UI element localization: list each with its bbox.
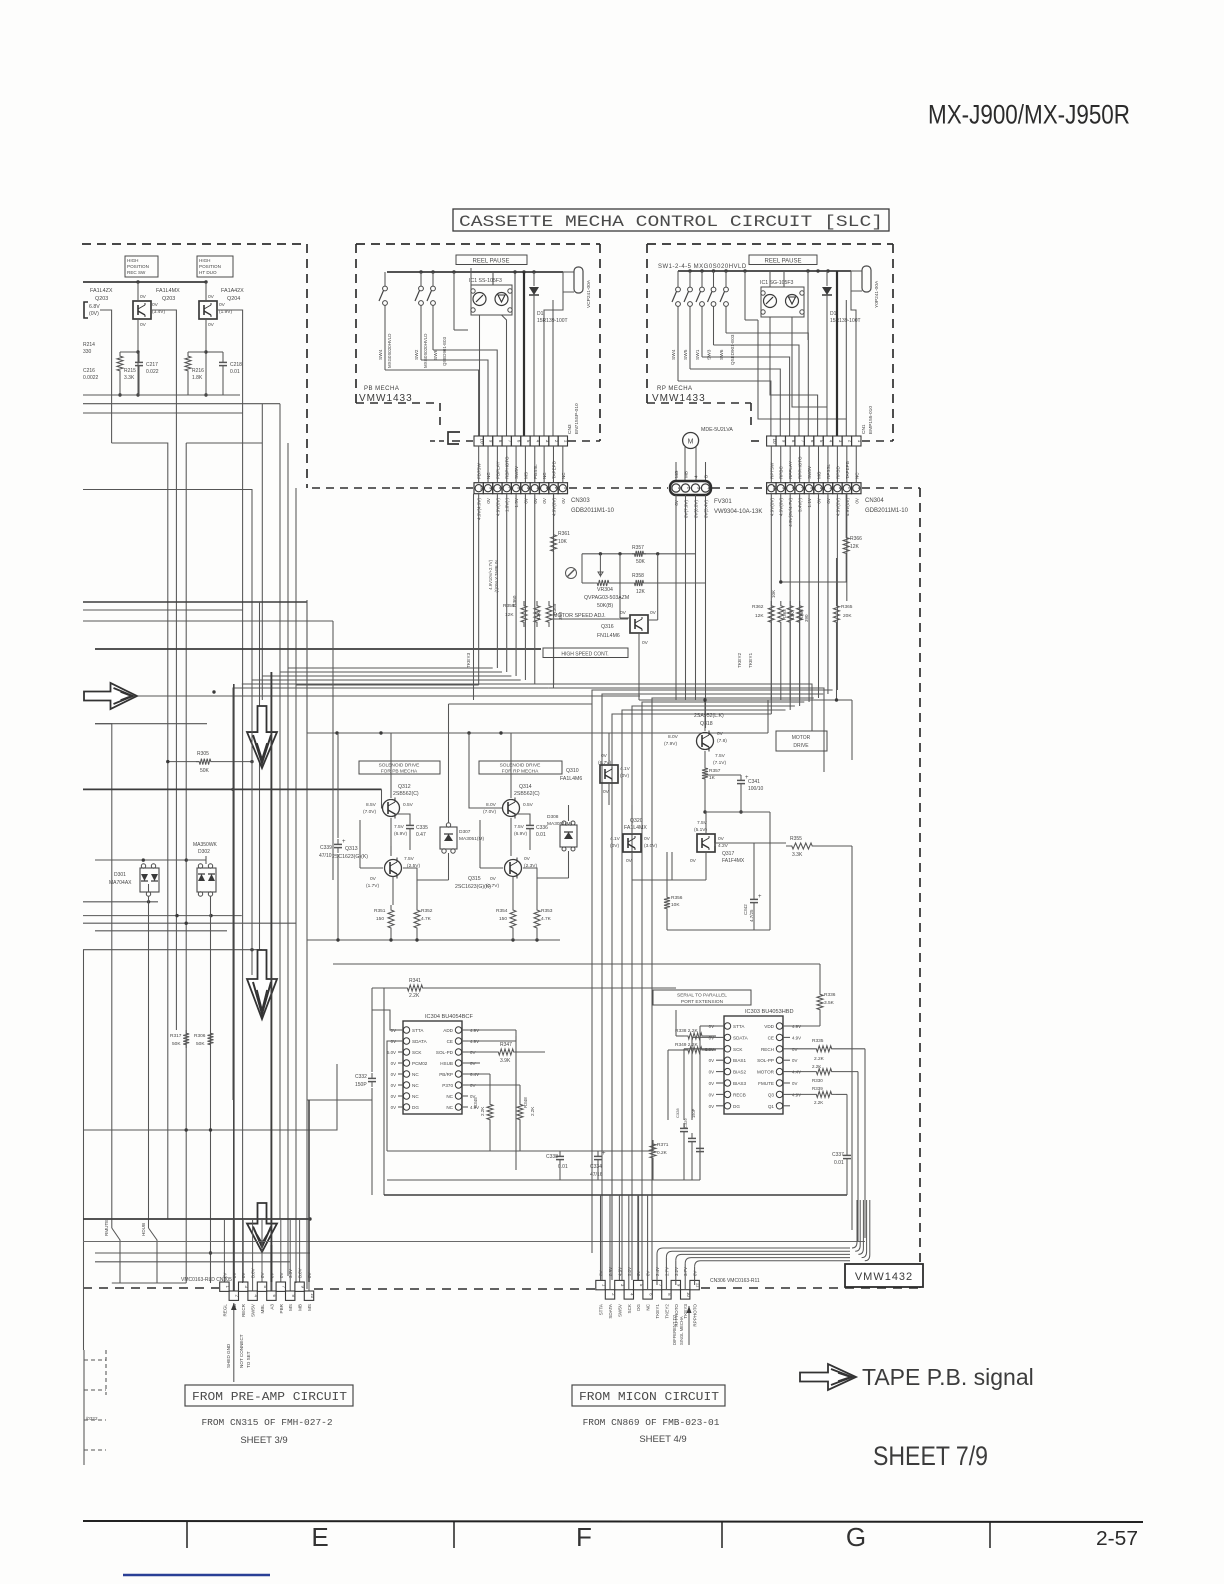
svg-text:2-57: 2-57 — [1096, 1528, 1138, 1550]
svg-text:TKEY2: TKEY2 — [664, 1304, 669, 1319]
svg-text:(1.7V): (1.7V) — [486, 883, 499, 889]
capacitor C339 — [337, 733, 339, 838]
svg-text:D302: D302 — [198, 849, 210, 855]
title box CASSETTE MECHA CONTROL CIRCUIT [SLC] — [453, 209, 889, 231]
svg-text:0V: 0V — [601, 753, 608, 759]
svg-text:DG: DG — [412, 1105, 419, 1110]
svg-text:SOLENOID DRIVE: SOLENOID DRIVE — [379, 763, 420, 769]
svg-text:C339: C339 — [320, 845, 332, 851]
wire IC big box — [383, 988, 385, 1195]
svg-text:330: 330 — [83, 349, 92, 355]
svg-text:(0V): (0V) — [89, 311, 99, 317]
switch SW6 PB — [432, 272, 434, 286]
wire y621 — [83, 620, 333, 622]
svg-text:R338 2.2K: R338 2.2K — [675, 1028, 698, 1034]
svg-text:G: G — [846, 1522, 866, 1552]
svg-text:R305: R305 — [197, 751, 209, 757]
svg-text:HIGH: HIGH — [199, 258, 210, 263]
svg-text:0V: 0V — [709, 1092, 714, 1097]
svg-text:SW6: SW6 — [719, 349, 725, 360]
svg-text:3.3V: 3.3V — [288, 1269, 293, 1278]
svg-text:1.8K: 1.8K — [192, 375, 203, 381]
wires motor drive loops — [818, 845, 852, 847]
wire y1261 — [95, 1261, 290, 1263]
svg-text:CN1: CN1 — [861, 424, 867, 434]
svg-text:2SB562(C): 2SB562(C) — [514, 791, 540, 797]
svg-text:8.0V: 8.0V — [486, 802, 497, 808]
svg-text:0V: 0V — [709, 1104, 714, 1109]
resistor R357b 1K — [702, 765, 708, 782]
svg-text:12K: 12K — [755, 613, 764, 619]
svg-text:SOL-PD: SOL-PD — [436, 1050, 454, 1055]
wire y923 — [83, 922, 296, 924]
svg-text:SW4: SW4 — [378, 349, 384, 360]
svg-text:12K: 12K — [636, 589, 646, 595]
svg-text:2SC1623(G)(K): 2SC1623(G)(K) — [332, 854, 368, 860]
svg-text:MB: MB — [684, 471, 689, 478]
wire y610 — [83, 609, 243, 611]
svg-text:MA3051(M): MA3051(M) — [547, 821, 572, 827]
svg-text:R354: R354 — [496, 908, 508, 914]
svg-text:R353: R353 — [541, 908, 553, 914]
blue underline mark — [123, 1574, 270, 1577]
svg-text:SW6: SW6 — [433, 349, 439, 360]
svg-text:12K: 12K — [850, 544, 860, 550]
svg-text:SW5V: SW5V — [514, 465, 519, 479]
wire verticals into CN306 — [600, 1195, 602, 1280]
ruler tick 4 — [989, 1522, 991, 1548]
svg-text:1K: 1K — [709, 775, 716, 781]
wire bus x262.3 — [261, 404, 263, 700]
svg-text:Q310: Q310 — [566, 768, 579, 774]
svg-text:P370: P370 — [442, 1083, 453, 1088]
screw adjust symbol — [566, 568, 577, 579]
svg-text:SHEET 4/9: SHEET 4/9 — [639, 1434, 686, 1445]
svg-text:R357: R357 — [709, 768, 721, 774]
wires IC303 right — [836, 1048, 865, 1050]
svg-text:VMC0163-RLD CN305: VMC0163-RLD CN305 — [181, 1277, 232, 1283]
wire y1130 — [83, 1064, 337, 1130]
svg-text:0V: 0V — [279, 1273, 284, 1278]
svg-text:R365: R365 — [841, 604, 853, 610]
label box FROM MICON CIRCUIT — [572, 1385, 725, 1406]
wire x612 column top — [611, 988, 613, 1280]
wire Q318 vertical — [704, 700, 706, 731]
svg-text:2.2K: 2.2K — [530, 1107, 535, 1116]
svg-text:MOTOR SPEED ADJ.: MOTOR SPEED ADJ. — [553, 613, 606, 619]
svg-text:(7.0V): (7.0V) — [363, 809, 376, 815]
svg-text:MA350WK: MA350WK — [193, 842, 218, 848]
resistor R216 — [188, 351, 206, 353]
svg-text:R361: R361 — [558, 531, 570, 537]
svg-text:43K: 43K — [536, 611, 542, 620]
capacitor C341 — [705, 774, 741, 776]
resistor cluster R362 R363 R364 R368 — [768, 601, 774, 627]
svg-text:4.1V: 4.1V — [610, 836, 621, 842]
svg-text:PBSSL: PBSSL — [533, 464, 538, 479]
svg-text:Q317: Q317 — [722, 851, 734, 857]
svg-text:43K: 43K — [790, 612, 795, 620]
wire solenoid bottom rail — [307, 939, 560, 941]
REEL PAUSE label box RP — [749, 255, 817, 265]
wire bottom rail y1283 — [112, 1282, 186, 1284]
resistor R345 — [489, 1074, 491, 1100]
left edge connector stub — [83, 1350, 85, 1465]
svg-text:R360: R360 — [512, 595, 518, 607]
wires CN303 pins down — [478, 494, 480, 685]
svg-text:R345: R345 — [473, 1097, 478, 1108]
svg-text:R339: R339 — [812, 1086, 823, 1091]
svg-text:0.01: 0.01 — [834, 1160, 844, 1166]
label box HIGH POSITION REC SW — [125, 256, 158, 277]
plug VCP241-00A PB — [574, 267, 583, 293]
svg-text:(3.0V): (3.0V) — [644, 843, 657, 849]
svg-text:ADD: ADD — [443, 1028, 453, 1033]
wire bus x307 lower — [306, 600, 308, 1289]
svg-text:R351: R351 — [374, 908, 386, 914]
wires Q313 network — [360, 867, 383, 869]
svg-text:0V: 0V — [717, 731, 724, 737]
svg-text:2.2K: 2.2K — [480, 1107, 485, 1116]
svg-text:RMUTE: RMUTE — [104, 1220, 109, 1236]
svg-text:FA1F4MX: FA1F4MX — [722, 858, 745, 864]
svg-text:REEL PAUSE: REEL PAUSE — [764, 259, 801, 265]
wire Q312 base feed — [382, 789, 384, 808]
svg-text:D307: D307 — [459, 829, 471, 835]
PB MECHA dashed enclosure — [356, 243, 600, 245]
down arrow 1 — [247, 706, 277, 768]
svg-text:RP MECHA: RP MECHA — [657, 386, 693, 392]
svg-text:0V: 0V — [792, 1081, 797, 1086]
resistor R365 — [834, 601, 840, 627]
svg-text:R317: R317 — [170, 1033, 182, 1039]
svg-text:HSUB: HSUB — [440, 1061, 453, 1066]
svg-text:POSITION: POSITION — [199, 264, 221, 269]
resistor R306 inline — [208, 1030, 214, 1048]
svg-text:10: 10 — [686, 1292, 691, 1297]
svg-text:15R139-100T: 15R139-100T — [537, 318, 568, 324]
wires IC304 left — [372, 1010, 398, 1030]
connector CN306 staggered pins — [596, 1280, 605, 1289]
svg-text:FV301: FV301 — [714, 499, 732, 505]
plug Y0P241-00A RP — [862, 266, 871, 292]
svg-text:C332: C332 — [355, 1074, 367, 1080]
svg-text:D1: D1 — [830, 311, 837, 317]
svg-text:0.0022: 0.0022 — [83, 375, 99, 381]
label box SOLENOID DRIVE FOR RP MECHA — [479, 761, 562, 774]
svg-text:NC: NC — [412, 1083, 419, 1088]
wire top rail y282 — [83, 281, 207, 283]
svg-text:MA704AX: MA704AX — [109, 880, 132, 886]
svg-text:VMW1432: VMW1432 — [855, 1271, 913, 1283]
wire y860 — [95, 859, 186, 861]
svg-text:SW1: SW1 — [695, 349, 701, 360]
svg-text:VW9304-10A-13K: VW9304-10A-13K — [714, 509, 762, 515]
wire verticals into CN305 — [223, 1219, 225, 1282]
svg-text:R362: R362 — [752, 604, 764, 610]
svg-text:4.9V10V/+2.7V): 4.9V10V/+2.7V) — [488, 559, 493, 589]
svg-text:TKEY1: TKEY1 — [748, 652, 754, 668]
svg-text:0V: 0V — [391, 1083, 396, 1088]
capacitor C335 — [395, 814, 410, 820]
wire bus x167.8 — [112, 443, 168, 1219]
svg-text:MA3051(M): MA3051(M) — [459, 836, 484, 842]
resistor R348 — [519, 1085, 521, 1100]
wire bus x296 — [295, 488, 297, 1283]
svg-text:Q318: Q318 — [700, 721, 713, 727]
svg-text:RP7SW: RP7SW — [769, 462, 774, 479]
wire horizontal y413 — [83, 412, 243, 414]
svg-text:HT DUO: HT DUO — [199, 270, 217, 275]
svg-text:C341: C341 — [748, 779, 760, 785]
svg-text:SW1-2-4-5 MXG0S020HVLD: SW1-2-4-5 MXG0S020HVLD — [658, 264, 747, 270]
resistor R335 — [790, 1048, 812, 1050]
svg-text:0V: 0V — [260, 1273, 265, 1278]
wire y915 — [83, 915, 242, 917]
wire horizontal y395 — [83, 394, 240, 396]
svg-text:0V: 0V — [690, 858, 697, 864]
svg-text:C337: C337 — [832, 1152, 844, 1158]
svg-text:(7.8): (7.8) — [717, 738, 727, 744]
svg-text:0.2K: 0.2K — [657, 1150, 668, 1156]
wire y789 thick — [83, 788, 382, 790]
svg-text:0V: 0V — [490, 876, 497, 882]
wires FV301 pins down — [675, 495, 677, 700]
svg-text:47/10: 47/10 — [319, 853, 332, 859]
svg-text:SHED GND: SHED GND — [226, 1343, 231, 1368]
svg-text:(6.9V): (6.9V) — [394, 831, 407, 837]
svg-text:8.5V: 8.5V — [366, 802, 377, 808]
svg-text:50K(B): 50K(B) — [597, 603, 613, 609]
svg-text:0V: 0V — [718, 836, 725, 842]
svg-text:0V: 0V — [709, 1058, 714, 1063]
svg-text:0V: 0V — [709, 1070, 714, 1075]
wires CN304 resistor drops — [770, 627, 772, 700]
svg-text:RPBD: RPBD — [835, 466, 840, 479]
svg-text:SINGL MECHA: SINGL MECHA — [679, 1316, 684, 1345]
svg-text:0V: 0V — [620, 610, 627, 616]
arrow right TAPE PB into bus — [135, 695, 640, 697]
wire curved fan into CN306 pins 7-11 — [656, 1254, 658, 1285]
svg-text:TAPEPB: TAPEPB — [551, 461, 556, 479]
label box FROM PRE-AMP CIRCUIT — [185, 1385, 353, 1406]
svg-text:5.0V: 5.0V — [387, 1050, 396, 1055]
svg-text:NC: NC — [646, 1303, 651, 1310]
wire y901 — [83, 901, 158, 903]
svg-text:50K: 50K — [200, 768, 210, 774]
svg-text:R306: R306 — [194, 1033, 206, 1039]
label box HIGH SPEED CONT — [543, 648, 628, 658]
svg-text:150P: 150P — [355, 1082, 367, 1088]
svg-text:VMW1433: VMW1433 — [359, 393, 413, 404]
resistors R359 R360 R369 — [521, 601, 527, 627]
svg-text:MG: MG — [674, 470, 679, 478]
svg-text:R355: R355 — [790, 836, 802, 842]
REEL PAUSE label box PB — [456, 255, 527, 265]
svg-text:0.5V: 0.5V — [523, 802, 534, 808]
wire PB thick pair — [514, 272, 516, 436]
svg-text:DRIVE: DRIVE — [793, 743, 809, 749]
wires PB opto to CN3 — [479, 315, 481, 436]
svg-text:R352: R352 — [421, 908, 433, 914]
svg-text:MS: MS — [288, 1304, 293, 1311]
svg-text:(1.7V): (1.7V) — [366, 883, 379, 889]
svg-text:PB MECHA: PB MECHA — [364, 386, 399, 392]
svg-text:C329: C329 — [683, 1118, 688, 1128]
svg-text:EN715SP-010: EN715SP-010 — [574, 403, 580, 434]
capacitor bank C328 C329 C330 — [683, 1123, 685, 1128]
svg-text:3.9K: 3.9K — [500, 1058, 511, 1064]
svg-text:MS: MS — [307, 1304, 312, 1311]
svg-text:STTA: STTA — [412, 1028, 424, 1033]
svg-text:(0V): (0V) — [620, 773, 629, 779]
svg-text:0V: 0V — [241, 1273, 246, 1278]
down arrow 2 — [247, 950, 277, 1019]
svg-text:RPSSL: RPSSL — [826, 463, 831, 479]
svg-text:SW4: SW4 — [671, 349, 677, 360]
svg-text:M: M — [688, 439, 694, 446]
svg-text:MXG0S020HVLD: MXG0S020HVLD — [423, 334, 428, 368]
wire pin10 column thick — [308, 1100, 310, 1282]
svg-text:FN1L4M6: FN1L4M6 — [597, 633, 620, 639]
wire PB D1 to pin — [533, 325, 535, 436]
svg-text:Q314: Q314 — [519, 784, 532, 790]
svg-text:0V: 0V — [269, 1273, 274, 1278]
svg-text:0.01: 0.01 — [230, 369, 240, 375]
capacitor C342 — [753, 843, 755, 894]
wire y930 — [95, 930, 227, 932]
svg-text:NC: NC — [412, 1072, 419, 1077]
svg-text:390: 390 — [804, 614, 809, 622]
svg-text:SOLENOID DRIVE: SOLENOID DRIVE — [500, 763, 541, 769]
svg-text:D1: D1 — [537, 311, 544, 317]
resistor R353 — [534, 905, 540, 933]
capacitor C336 — [515, 814, 530, 820]
connector CN3 pin row — [474, 436, 483, 446]
wire y1100 — [307, 1099, 372, 1101]
svg-text:2.2K: 2.2K — [409, 993, 420, 999]
svg-text:FA1A42X: FA1A42X — [221, 288, 244, 294]
wire solenoid left loop — [306, 600, 308, 733]
svg-text:SOL-PP: SOL-PP — [757, 1058, 774, 1063]
svg-text:PB/RP: PB/RP — [439, 1072, 453, 1077]
svg-text:R330: R330 — [812, 1078, 823, 1083]
svg-text:10K: 10K — [671, 902, 680, 908]
svg-text:D308: D308 — [547, 814, 559, 820]
svg-text:NC: NC — [446, 1105, 453, 1110]
wire bus x288 — [287, 443, 289, 1276]
wire D301 bottom drop — [148, 896, 150, 1228]
svg-text:100/10: 100/10 — [748, 786, 764, 792]
svg-text:0V: 0V — [542, 497, 547, 504]
svg-text:SW5V: SW5V — [807, 465, 812, 479]
wire long y688 to right column — [549, 688, 824, 772]
svg-text:(7.9V): (7.9V) — [664, 741, 677, 747]
diode D307 MA3051M — [440, 827, 457, 849]
svg-text:TAPE P.B. signal: TAPE P.B. signal — [862, 1364, 1034, 1390]
svg-text:SCK: SCK — [733, 1047, 743, 1052]
svg-text:4.9V: 4.9V — [792, 1035, 801, 1040]
svg-text:MXG0S020HVLD: MXG0S020HVLD — [387, 334, 392, 368]
svg-text:EMP155-010: EMP155-010 — [868, 406, 874, 434]
svg-text:SDATA: SDATA — [608, 1303, 613, 1319]
svg-text:R336: R336 — [824, 992, 836, 998]
svg-text:E: E — [311, 1522, 328, 1552]
svg-text:GDB2011M1-10: GDB2011M1-10 — [865, 508, 909, 514]
resistor R336 — [819, 964, 821, 990]
svg-text:R216: R216 — [192, 368, 204, 374]
svg-text:0V: 0V — [152, 302, 159, 308]
svg-text:B.0V: B.0V — [251, 1268, 256, 1278]
wire collector Q204 right loop — [217, 310, 243, 413]
svg-text:TKEY2: TKEY2 — [737, 652, 743, 668]
wire horizontal y403 — [83, 403, 280, 405]
svg-text:150: 150 — [499, 916, 507, 922]
resistor R366 — [843, 533, 849, 558]
wires IC304 right rails — [468, 1029, 516, 1031]
arrow different-to note — [688, 1306, 690, 1345]
wires CN1 to CN304 with labels — [770, 446, 772, 483]
svg-text:RECR: RECR — [241, 1303, 246, 1317]
svg-text:VCP241-00A: VCP241-00A — [586, 279, 592, 308]
wire y602 thick — [83, 601, 307, 603]
wire fan CN303 to left bus — [296, 684, 479, 686]
capacitor C338 — [559, 1151, 561, 1156]
box VMW1432 — [845, 1264, 923, 1287]
svg-text:(*)ONLY TAPE IN: (*)ONLY TAPE IN — [494, 560, 499, 593]
svg-text:B: B — [704, 475, 709, 478]
svg-text:2.2K: 2.2K — [812, 1064, 821, 1069]
wire IC bottom rail y1151 — [387, 1150, 598, 1152]
svg-text:C217: C217 — [146, 362, 158, 368]
svg-text:4.7K: 4.7K — [421, 916, 432, 922]
ruler tick 1 — [186, 1522, 188, 1548]
svg-text:SCK: SCK — [412, 1050, 422, 1055]
svg-text:R357: R357 — [632, 545, 644, 551]
svg-text:RECH: RECH — [761, 1047, 774, 1052]
svg-text:SDATA: SDATA — [733, 1035, 749, 1040]
svg-text:NOT CONNECT: NOT CONNECT — [239, 1334, 244, 1368]
svg-text:FROM CN315 OF FMH-027-2: FROM CN315 OF FMH-027-2 — [201, 1417, 332, 1428]
svg-text:CN303: CN303 — [571, 498, 590, 504]
svg-text:R341: R341 — [409, 978, 421, 984]
svg-text:C335: C335 — [416, 825, 428, 831]
svg-text:RPPHOTO: RPPHOTO — [693, 1304, 698, 1327]
svg-text:RECB: RECB — [733, 1092, 746, 1097]
svg-text:TKEY1: TKEY1 — [655, 1304, 660, 1319]
wire bus x259.5 — [259, 602, 261, 950]
svg-text:FA1L4M6: FA1L4M6 — [560, 776, 582, 782]
wire solenoid to IC rail — [390, 846, 392, 856]
dashed boundary mid horizontal y488 right part — [862, 487, 920, 489]
resistor R317 inline — [183, 1030, 189, 1048]
svg-text:0V: 0V — [391, 1061, 396, 1066]
svg-text:FROM MICON CIRCUIT: FROM MICON CIRCUIT — [579, 1390, 719, 1404]
svg-text:SW5V: SW5V — [251, 1303, 256, 1317]
svg-text:TKEY3: TKEY3 — [466, 652, 472, 668]
svg-text:HDUB: HDUB — [141, 1223, 146, 1236]
dashed boundary left vertical x307 — [306, 244, 308, 488]
wires RP switches to CN1 — [678, 381, 771, 436]
svg-text:7.5V: 7.5V — [404, 856, 415, 862]
wire y1219 thick — [83, 1218, 310, 1220]
svg-text:C338: C338 — [546, 1154, 558, 1160]
wires RP opto to CN1 — [770, 317, 818, 436]
svg-text:2SA952(L.K): 2SA952(L.K) — [694, 713, 724, 719]
svg-text:R363: R363 — [782, 609, 787, 620]
wire bus x176.4 — [175, 404, 177, 1030]
resistor R305 — [168, 761, 199, 763]
